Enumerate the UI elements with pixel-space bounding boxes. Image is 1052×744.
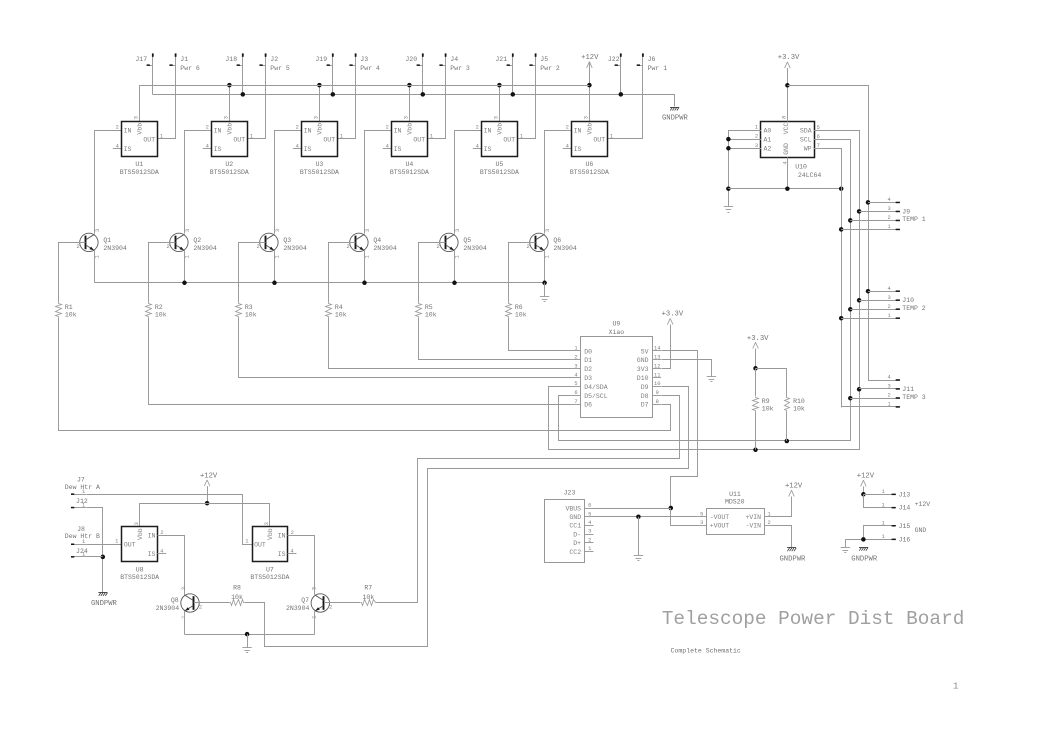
connector J22 (608, 53, 622, 94)
ground GND emitters (540, 283, 549, 302)
svg-text:2: 2 (256, 244, 259, 250)
svg-text:D-: D- (573, 531, 581, 538)
transistor Q4 2N3904 (346, 229, 396, 259)
svg-text:2: 2 (436, 244, 439, 250)
svg-text:5: 5 (700, 511, 703, 517)
svg-text:J4: J4 (450, 56, 458, 63)
svg-text:Vbb: Vbb (226, 123, 233, 135)
svg-text:Q1: Q1 (103, 237, 111, 244)
ground GNDPWR top (662, 107, 689, 122)
svg-text:10k: 10k (335, 312, 347, 319)
resistor R9 10k (753, 397, 774, 413)
svg-text:OUT: OUT (254, 542, 266, 549)
svg-text:J9: J9 (902, 208, 910, 215)
wire Q8 base (194, 602, 229, 604)
svg-text:3: 3 (545, 229, 551, 232)
resistor R3 10k (236, 302, 257, 319)
IC U5 BTS5012SDA (476, 116, 524, 176)
svg-text:J6: J6 (648, 56, 656, 63)
svg-text:2: 2 (888, 393, 891, 399)
svg-text:4: 4 (476, 143, 479, 149)
svg-text:+12V: +12V (785, 482, 803, 490)
svg-text:IN: IN (484, 127, 492, 134)
svg-text:1: 1 (882, 489, 885, 495)
wire Vbb U6 (589, 62, 591, 122)
ground GND U10 (724, 193, 733, 212)
svg-text:2N3904: 2N3904 (553, 245, 577, 252)
IC U8 BTS5012SDA (115, 522, 164, 581)
svg-text:GNDPWR: GNDPWR (662, 115, 689, 123)
svg-text:D2: D2 (584, 366, 592, 373)
connector J16 (845, 534, 910, 544)
svg-text:IS: IS (278, 551, 286, 558)
svg-text:J13: J13 (899, 491, 911, 498)
IC U2 BTS5012SDA (206, 116, 254, 176)
svg-text:Vbb: Vbb (137, 528, 144, 540)
svg-text:OUT: OUT (323, 136, 335, 143)
svg-text:3: 3 (275, 229, 281, 232)
svg-text:BTS5012SDA: BTS5012SDA (120, 574, 159, 581)
svg-text:Vbb: Vbb (587, 123, 594, 135)
wire GNDPWR bus (153, 92, 675, 106)
svg-text:IN: IN (148, 533, 156, 540)
svg-text:TEMP 3: TEMP 3 (902, 394, 926, 401)
svg-text:Complete Schematic: Complete Schematic (671, 647, 741, 654)
svg-text:10k: 10k (362, 594, 374, 601)
wire Vbb U4 (407, 83, 412, 122)
pin IS U1 (113, 148, 122, 150)
svg-text:3: 3 (133, 116, 139, 119)
svg-text:1: 1 (250, 134, 253, 140)
svg-text:2: 2 (755, 134, 758, 140)
svg-text:U9: U9 (612, 320, 620, 327)
svg-text:+3.3V: +3.3V (747, 335, 769, 343)
svg-text:BTS5012SDA: BTS5012SDA (570, 169, 609, 176)
svg-text:IS: IS (214, 146, 222, 153)
pin IS U3 (293, 148, 302, 150)
svg-text:OUT: OUT (143, 136, 155, 143)
svg-text:R2: R2 (155, 304, 163, 311)
svg-text:9: 9 (656, 390, 659, 396)
svg-text:VBUS: VBUS (565, 505, 581, 512)
wire D9 to R8 (246, 387, 689, 647)
svg-text:VCC: VCC (783, 122, 790, 134)
svg-text:IN: IN (394, 127, 402, 134)
svg-text:4: 4 (888, 197, 891, 203)
svg-text:1: 1 (882, 534, 885, 540)
EEPROM U10 24LC64 (752, 116, 823, 179)
wire SDA net (549, 131, 862, 453)
svg-text:Dew Htr B: Dew Htr B (65, 533, 100, 540)
svg-text:D1: D1 (584, 357, 592, 364)
svg-text:MDS20: MDS20 (725, 498, 745, 505)
svg-text:Q2: Q2 (193, 237, 201, 244)
connector J9 TEMP 1 (841, 197, 926, 230)
svg-text:IN: IN (124, 127, 132, 134)
wire SCL net (559, 140, 853, 444)
svg-text:BTS5012SDA: BTS5012SDA (480, 169, 519, 176)
ground GNDPWR dew (91, 593, 118, 609)
svg-text:J3: J3 (360, 56, 368, 63)
wire U10 address pins (726, 130, 761, 193)
svg-text:3: 3 (185, 229, 191, 232)
svg-text:8: 8 (656, 399, 659, 405)
svg-text:4: 4 (566, 143, 569, 149)
svg-text:IS: IS (304, 146, 312, 153)
wire J8 to U8 OUT (86, 544, 122, 546)
svg-text:D7: D7 (641, 402, 649, 409)
svg-text:3V3: 3V3 (637, 366, 649, 373)
svg-text:1: 1 (455, 255, 461, 258)
svg-text:GND: GND (783, 143, 790, 155)
ground GND J23 (594, 514, 698, 560)
svg-text:R5: R5 (425, 304, 433, 311)
svg-text:3: 3 (588, 529, 591, 535)
svg-text:J10: J10 (902, 297, 914, 304)
svg-text:3: 3 (134, 522, 140, 525)
svg-text:2: 2 (199, 604, 202, 610)
svg-text:10k: 10k (245, 312, 257, 319)
svg-text:D8: D8 (641, 393, 649, 400)
wire emitter Q6 (544, 251, 546, 283)
svg-text:2: 2 (888, 304, 891, 310)
svg-text:24LC64: 24LC64 (798, 172, 822, 179)
power +3.3V U10 (778, 54, 800, 121)
pin IS U2 (203, 148, 212, 150)
connector J13 (863, 489, 910, 498)
connector J17 (135, 53, 153, 94)
svg-text:D5/SCL: D5/SCL (584, 393, 608, 400)
svg-text:1: 1 (882, 502, 885, 508)
svg-text:1: 1 (588, 546, 591, 552)
subtitle text (671, 647, 741, 654)
svg-text:GNDPWR: GNDPWR (779, 556, 806, 564)
wire R4 to U9 D2 (329, 319, 572, 369)
wire Q7 base (324, 602, 360, 604)
svg-text:2N3904: 2N3904 (103, 245, 127, 252)
connector J1 Pwr 6 (169, 53, 200, 139)
svg-text:1: 1 (340, 134, 343, 140)
power +12V dew (200, 472, 218, 505)
svg-text:OUT: OUT (124, 542, 136, 549)
svg-text:D+: D+ (573, 540, 581, 547)
svg-text:U6: U6 (585, 161, 593, 168)
svg-text:1: 1 (95, 255, 101, 258)
svg-text:IS: IS (148, 551, 156, 558)
svg-text:-VIN: -VIN (745, 523, 761, 530)
connector J10 TEMP 2 (841, 286, 926, 319)
wire VBUS (594, 508, 671, 510)
IC U4 BTS5012SDA (386, 116, 434, 176)
svg-text:2: 2 (206, 125, 209, 131)
svg-text:2N3904: 2N3904 (373, 245, 397, 252)
svg-text:Dew Htr A: Dew Htr A (65, 484, 100, 491)
svg-text:Q5: Q5 (463, 237, 471, 244)
svg-text:WP: WP (804, 146, 812, 153)
wire J7 to U7 OUT (87, 495, 253, 545)
svg-text:1: 1 (520, 134, 523, 140)
svg-text:+VOUT: +VOUT (710, 523, 730, 530)
svg-text:IS: IS (484, 146, 492, 153)
svg-text:2N3904: 2N3904 (463, 245, 487, 252)
connector J5 Pwr 2 (529, 53, 560, 139)
wire 5V net (662, 351, 698, 511)
svg-text:2N3904: 2N3904 (286, 605, 310, 612)
svg-text:10k: 10k (515, 312, 527, 319)
svg-text:5: 5 (574, 381, 577, 387)
wire U10 GND bus (728, 157, 843, 191)
svg-text:4: 4 (588, 520, 591, 526)
wire OUT U6 (607, 138, 643, 140)
svg-text:2: 2 (588, 537, 591, 543)
svg-text:J5: J5 (540, 56, 548, 63)
svg-text:3: 3 (314, 116, 320, 119)
wire Vbb rail U7 U8 (139, 503, 270, 526)
svg-text:GND: GND (569, 514, 581, 521)
svg-text:+3.3V: +3.3V (662, 311, 684, 319)
wire J24 (86, 556, 103, 558)
svg-text:4: 4 (296, 143, 299, 149)
svg-text:J19: J19 (315, 56, 327, 63)
svg-text:10k: 10k (231, 594, 243, 601)
connector J14 +12V (864, 495, 931, 512)
ground GND U9 (662, 360, 717, 382)
transistor Q2 2N3904 (166, 229, 216, 259)
pin IS U8 (157, 553, 166, 555)
wire base Q2 (149, 243, 176, 302)
wire emitter Q3 (274, 251, 276, 283)
wire base Q3 (239, 243, 266, 302)
svg-text:1: 1 (365, 255, 371, 258)
svg-text:2: 2 (767, 520, 770, 526)
svg-text:R4: R4 (335, 304, 343, 311)
svg-text:Vbb: Vbb (407, 123, 414, 135)
svg-text:7: 7 (574, 399, 577, 405)
svg-text:3: 3 (455, 229, 461, 232)
svg-text:Pwr 3: Pwr 3 (450, 65, 470, 72)
svg-text:12: 12 (654, 363, 660, 369)
svg-text:4: 4 (116, 143, 119, 149)
title text (662, 608, 965, 630)
resistor R7 10k (361, 585, 377, 606)
wire U8 IN to Q8 (158, 536, 185, 595)
svg-text:2: 2 (888, 215, 891, 221)
svg-text:10k: 10k (425, 312, 437, 319)
pin IS U6 (563, 148, 572, 150)
transistor Q8 2N3904 (156, 587, 202, 619)
svg-text:3: 3 (365, 229, 371, 232)
power +3.3V U9 (662, 311, 684, 369)
svg-text:Q4: Q4 (373, 237, 381, 244)
svg-text:D0: D0 (584, 348, 592, 355)
svg-text:J2: J2 (270, 56, 278, 63)
svg-text:U7: U7 (266, 566, 274, 573)
svg-text:3: 3 (223, 116, 229, 119)
svg-text:4: 4 (888, 375, 891, 381)
svg-text:1: 1 (545, 255, 551, 258)
svg-text:3: 3 (494, 116, 500, 119)
svg-text:J1: J1 (180, 56, 188, 63)
resistor R10 10k (785, 397, 805, 413)
wire OUT U4 (427, 138, 446, 140)
svg-text:3: 3 (584, 116, 590, 119)
wire base Q1 (59, 243, 86, 302)
svg-text:+12V: +12V (857, 473, 875, 481)
svg-text:10k: 10k (793, 406, 805, 413)
svg-text:3: 3 (755, 143, 758, 149)
svg-text:1: 1 (245, 539, 248, 545)
transistor Q1 2N3904 (76, 229, 126, 259)
wire D8 to R7 (377, 396, 680, 603)
connector J23 USB (545, 490, 594, 563)
svg-text:BTS5012SDA: BTS5012SDA (390, 169, 429, 176)
svg-text:D6: D6 (584, 402, 592, 409)
wire OUT U5 (517, 138, 536, 140)
svg-text:2: 2 (329, 604, 332, 610)
wire +VOUT to 5V (671, 509, 698, 526)
wire IN U3 (275, 131, 302, 234)
svg-text:Pwr 1: Pwr 1 (648, 65, 668, 72)
svg-text:3: 3 (888, 295, 891, 301)
svg-text:3: 3 (181, 587, 187, 590)
svg-text:R9: R9 (762, 398, 770, 405)
svg-text:+12V: +12V (581, 54, 599, 62)
svg-text:1: 1 (115, 539, 118, 545)
svg-text:4: 4 (574, 372, 577, 378)
wire Vbb U2 (227, 83, 232, 122)
svg-text:R1: R1 (65, 304, 73, 311)
wire R10 top (756, 369, 787, 397)
svg-text:J21: J21 (495, 56, 507, 63)
svg-text:1: 1 (160, 134, 163, 140)
svg-text:1: 1 (574, 346, 577, 352)
svg-text:TEMP 2: TEMP 2 (902, 305, 926, 312)
wire base Q5 (419, 243, 446, 302)
svg-text:Q6: Q6 (553, 237, 561, 244)
svg-text:D10: D10 (637, 375, 649, 382)
connector J12 (71, 498, 88, 508)
svg-text:3: 3 (888, 206, 891, 212)
wire WP and temp GND (823, 149, 844, 408)
transistor Q3 2N3904 (256, 229, 306, 259)
svg-text:1: 1 (610, 134, 613, 140)
svg-text:IN: IN (278, 533, 286, 540)
power +12V top (581, 54, 599, 87)
resistor R5 10k (416, 302, 437, 319)
svg-text:IN: IN (304, 127, 312, 134)
svg-text:R6: R6 (515, 304, 523, 311)
svg-text:TEMP 1: TEMP 1 (902, 216, 926, 223)
wire J12 to GNDPWR (87, 508, 106, 593)
svg-text:13: 13 (654, 355, 660, 361)
svg-text:5: 5 (588, 511, 591, 517)
svg-text:1: 1 (767, 511, 770, 517)
connector J19 (315, 53, 333, 94)
svg-text:1: 1 (185, 255, 191, 258)
svg-text:2N3904: 2N3904 (283, 245, 307, 252)
wire R10 bottom (786, 412, 788, 441)
wire emitter bus (95, 281, 547, 286)
DCDC U11 MDS20 (697, 491, 773, 535)
svg-text:10k: 10k (762, 406, 774, 413)
connector J8 Dew Htr B (65, 526, 100, 545)
svg-text:GND: GND (915, 527, 927, 534)
wire OUT U2 (247, 138, 266, 140)
svg-text:U10: U10 (795, 164, 807, 171)
wire emitter Q4 (364, 251, 366, 283)
wire OUT U1 (157, 138, 176, 140)
svg-text:OUT: OUT (593, 136, 605, 143)
svg-text:OUT: OUT (413, 136, 425, 143)
pin IS U7 (288, 553, 297, 555)
svg-text:U8: U8 (136, 566, 144, 573)
svg-text:2: 2 (476, 125, 479, 131)
svg-text:U4: U4 (405, 161, 413, 168)
svg-text:U5: U5 (495, 161, 503, 168)
svg-text:GNDPWR: GNDPWR (851, 556, 878, 564)
svg-text:2: 2 (526, 244, 529, 250)
svg-text:2: 2 (574, 355, 577, 361)
svg-text:Vbb: Vbb (317, 123, 324, 135)
svg-text:Pwr 5: Pwr 5 (270, 65, 290, 72)
svg-text:+3.3V: +3.3V (778, 54, 800, 62)
svg-text:6: 6 (817, 134, 820, 140)
svg-text:5V: 5V (641, 348, 649, 355)
page number (953, 681, 959, 692)
svg-text:3: 3 (312, 587, 318, 590)
svg-text:OUT: OUT (503, 136, 515, 143)
svg-text:J7: J7 (77, 476, 85, 483)
svg-text:2: 2 (160, 530, 163, 536)
svg-text:1: 1 (882, 521, 885, 527)
svg-text:Vbb: Vbb (136, 123, 143, 135)
svg-text:BTS5012SDA: BTS5012SDA (120, 169, 159, 176)
resistor R8 10k (229, 585, 246, 606)
svg-text:A0: A0 (764, 127, 772, 134)
svg-text:IS: IS (574, 146, 582, 153)
svg-text:R10: R10 (793, 398, 805, 405)
svg-text:3: 3 (95, 229, 101, 232)
resistor R4 10k (326, 302, 347, 319)
svg-text:D3: D3 (584, 375, 592, 382)
svg-text:+VIN: +VIN (745, 514, 761, 521)
wire R9 bottom (755, 412, 757, 450)
svg-text:U11: U11 (729, 491, 741, 498)
wire R5 to U9 D1 (419, 319, 572, 360)
svg-text:4: 4 (386, 143, 389, 149)
resistor R1 10k (56, 302, 77, 319)
svg-text:2: 2 (386, 125, 389, 131)
ground GND J16 (841, 539, 850, 552)
ground GND dew (242, 634, 251, 652)
svg-text:1: 1 (888, 313, 891, 319)
svg-text:GNDPWR: GNDPWR (91, 600, 118, 608)
svg-text:J16: J16 (899, 537, 911, 544)
svg-text:5: 5 (817, 125, 820, 131)
svg-text:J15: J15 (899, 523, 911, 530)
svg-text:Pwr 6: Pwr 6 (180, 65, 200, 72)
wire +3.3V to temp connectors (788, 86, 871, 381)
svg-text:Telescope Power Dist Board: Telescope Power Dist Board (662, 608, 965, 630)
svg-text:J11: J11 (902, 386, 914, 393)
svg-text:Xiao: Xiao (609, 329, 625, 336)
svg-text:2: 2 (291, 530, 294, 536)
svg-text:IS: IS (124, 146, 132, 153)
pin IS U5 (473, 148, 482, 150)
svg-text:10k: 10k (155, 312, 167, 319)
power +12V J13 (857, 473, 875, 497)
transistor Q5 2N3904 (436, 229, 486, 259)
